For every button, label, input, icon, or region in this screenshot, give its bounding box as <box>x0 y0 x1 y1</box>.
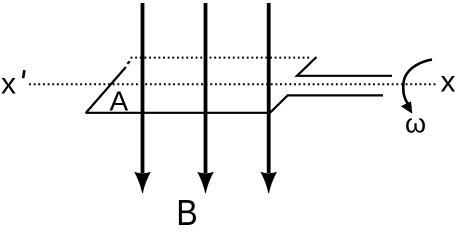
svg-text:A: A <box>110 86 129 117</box>
svg-text:B: B <box>176 192 198 228</box>
svg-text:ω: ω <box>405 109 426 139</box>
svg-text:x: x <box>1 68 16 101</box>
svg-text:x: x <box>441 66 456 99</box>
